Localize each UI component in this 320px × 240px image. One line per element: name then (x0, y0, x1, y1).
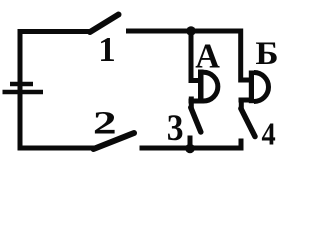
svg-text:1: 1 (98, 30, 116, 69)
svg-text:Б: Б (255, 36, 278, 72)
svg-text:4: 4 (262, 116, 276, 152)
svg-text:2: 2 (93, 104, 117, 141)
svg-text:3: 3 (167, 106, 184, 148)
svg-text:А: А (195, 37, 220, 75)
